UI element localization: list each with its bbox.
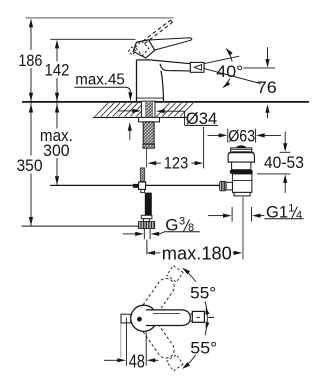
lever dashed raised line 1	[144, 23, 172, 44]
dim 76 arrow up	[265, 104, 269, 113]
plan lever capsule	[146, 310, 190, 326]
dim O34 arrow left-side	[119, 110, 133, 112]
handle knob	[133, 40, 155, 58]
dim 40-53 arrow up	[283, 174, 287, 183]
hose tee fitting left box	[133, 184, 138, 188]
dim max45 leader	[126, 87, 131, 93]
spray angle lower line	[204, 69, 260, 84]
faucet centerline below stud	[146, 148, 148, 167]
dim max45 underline	[74, 86, 125, 88]
plan center dot	[137, 317, 142, 322]
dim G1-14 arrow left	[208, 215, 223, 217]
plan dashed square upper	[167, 266, 183, 282]
plan zero reference dash	[208, 316, 214, 318]
swing arc arrowhead -12	[206, 322, 210, 330]
dim 48 arrow left	[104, 359, 118, 361]
svg-text:G1: G1	[266, 202, 288, 221]
dim 142 arrow up	[55, 40, 59, 49]
threaded stud	[143, 122, 155, 148]
spray arc arrowhead upper	[226, 48, 233, 56]
lever blade solid	[149, 38, 192, 50]
plan square inner dash	[197, 316, 200, 318]
aerator mousseur symbol	[194, 65, 201, 71]
svg-text:1: 1	[288, 203, 294, 215]
dim G1-14 underline	[264, 218, 303, 220]
dim 48 left ext line	[125, 318, 127, 366]
dim 40-53 bottom tick	[257, 173, 290, 175]
dim O63 arrow right	[256, 133, 265, 137]
plan neck lines	[190, 313, 192, 315]
swing arc lower segment	[185, 355, 196, 367]
dim O34 leader	[184, 111, 186, 125]
spray angle arc lower	[223, 79, 229, 88]
faucet body right edge	[161, 71, 164, 102]
svg-text:40-53: 40-53	[264, 153, 304, 172]
dim 76 line lower	[267, 111, 269, 118]
dim 350 bottom ref line	[22, 225, 139, 227]
swing arc middle segment	[205, 301, 207, 335]
faucet spout top edge	[152, 60, 191, 64]
swing arc arrowhead +12	[206, 307, 210, 315]
dim O63 ticks	[227, 129, 229, 143]
svg-text:186: 186	[18, 51, 42, 70]
dim max300 arrow down	[55, 176, 59, 185]
dim 123 arrow right	[191, 162, 195, 164]
lever tip dashed diamond (down position)	[128, 47, 135, 55]
dim 48 right ext line	[145, 332, 147, 365]
faucet spout underside	[160, 64, 191, 71]
deck hatching	[95, 103, 193, 116]
drain upper body	[232, 162, 251, 170]
swing arc upper segment	[185, 270, 196, 282]
dim max300 arrow up	[55, 104, 59, 113]
svg-text:max.180: max.180	[162, 244, 232, 264]
dim G38 arrow right	[151, 232, 160, 236]
drain plug knob	[231, 145, 252, 151]
dim max45 arrow	[128, 92, 132, 101]
plan dashed lever upper capsule	[142, 278, 175, 316]
hose end connector	[141, 215, 152, 221]
spray angle upper line	[204, 56, 239, 63]
dim O34 underline	[185, 124, 218, 126]
dim 76 arrow down	[265, 59, 269, 68]
braided hose upper segment	[140, 168, 144, 182]
dim 142 arrow down	[55, 93, 59, 102]
dim O34 arrow right-side	[156, 109, 165, 113]
svg-text:G: G	[165, 216, 178, 235]
drain bottom ring	[234, 192, 250, 196]
plan square	[192, 311, 204, 322]
svg-text:Ø34: Ø34	[186, 109, 218, 128]
drain side port connector	[226, 182, 232, 190]
swing arc arrowhead +55	[182, 268, 190, 275]
svg-text:48: 48	[129, 351, 145, 371]
aerator box	[190, 62, 204, 72]
plan lever inner line	[153, 312, 180, 314]
svg-text:4: 4	[296, 209, 302, 221]
plan dashed lever lower capsule	[142, 320, 175, 358]
faucet body left edge	[136, 60, 138, 102]
drain flange dome	[228, 152, 254, 162]
drain o-ring	[230, 170, 253, 174]
dim max180 left tick	[146, 240, 148, 255]
dim 186 arrow up	[29, 19, 33, 28]
dim 123 arrow left	[148, 161, 157, 165]
drain lower body	[232, 174, 252, 193]
G3/8 stub lines	[143, 229, 145, 240]
dim max45 lower arrow	[128, 122, 132, 131]
spray angle arc upper	[227, 49, 233, 62]
dim 48 gray ext	[120, 324, 122, 359]
svg-text:3: 3	[179, 215, 185, 227]
hose tee fitting center	[139, 182, 146, 189]
dim 142 top tick	[50, 38, 135, 40]
dim max180 arrow right	[233, 252, 234, 254]
drain pull rod horizontal	[50, 184, 133, 186]
spray arc arrowhead lower	[222, 81, 230, 88]
deck surface line	[22, 101, 309, 103]
dim 123 right ext line	[203, 127, 205, 168]
drain side port knurled cap	[220, 181, 226, 190]
dim max180 arrow left	[146, 251, 155, 255]
dim 186 arrow down	[29, 93, 33, 102]
swing arc arrowhead -55	[182, 362, 190, 369]
dim 48 arrow right	[147, 358, 156, 362]
dim 350 arrow up	[29, 104, 33, 113]
svg-text:max.45: max.45	[75, 72, 125, 89]
dim G1-14 arrow right	[252, 214, 261, 218]
dim 142/max300 line	[56, 41, 58, 62]
svg-text:300: 300	[43, 141, 70, 160]
plan body circle	[131, 305, 157, 331]
dim 76 line upper	[267, 47, 269, 59]
svg-text:8: 8	[188, 222, 194, 234]
drain tailpipe	[242, 196, 244, 260]
hose tee neck	[141, 189, 145, 192]
dim 40-53 top tick	[280, 151, 291, 153]
threaded shank through deck	[141, 101, 155, 117]
dim 76 top ref line	[244, 67, 276, 69]
plan front stub	[121, 314, 131, 323]
svg-text:55°: 55°	[190, 284, 216, 303]
faucet body top edge	[137, 59, 153, 61]
dim 350 arrow down	[29, 217, 33, 226]
plan dashed square lower	[167, 355, 183, 371]
dim 40-53 arrow down	[284, 132, 286, 144]
dim G38 arrow left	[123, 233, 136, 235]
faucet base line	[137, 97, 164, 99]
washer under deck	[139, 117, 160, 122]
lever dashed tip cap	[170, 20, 172, 23]
G3/8 swivel nut	[139, 222, 155, 229]
svg-text:40°: 40°	[216, 62, 243, 81]
svg-text:Ø63: Ø63	[228, 126, 255, 145]
dim G38 underline	[164, 231, 200, 233]
svg-text:55°: 55°	[190, 339, 217, 358]
dim O63 arrow left	[208, 134, 220, 136]
flexible hose black	[145, 193, 152, 218]
lever dashed raised line 2	[143, 20, 171, 41]
svg-text:350: 350	[17, 156, 43, 175]
top reference line (lever top level)	[26, 17, 174, 19]
handle knob dashed (raised position)	[135, 41, 149, 56]
dim G1-14 ticks	[231, 207, 233, 222]
svg-text:142: 142	[45, 61, 70, 80]
svg-text:123: 123	[164, 153, 189, 172]
deck underside line	[93, 116, 186, 118]
svg-text:76: 76	[257, 78, 277, 97]
dim 186/350 line	[30, 20, 32, 50]
